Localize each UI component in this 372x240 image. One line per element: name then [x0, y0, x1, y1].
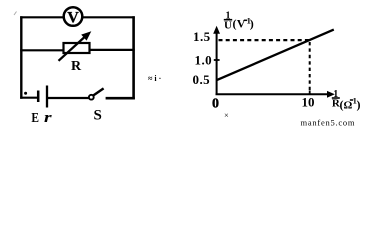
svg-text:r: r	[44, 110, 52, 126]
dashed vertical line at 10	[309, 42, 311, 94]
svg-text:): )	[250, 17, 254, 31]
battery short plate	[37, 91, 40, 103]
svg-text:0.5: 0.5	[193, 72, 211, 87]
svg-text:S: S	[94, 108, 102, 124]
wire: bottom rail middle segment	[48, 97, 89, 99]
plotted line	[217, 30, 334, 81]
y-axis title: (V^-1)	[233, 16, 254, 31]
tick 1.0 on y-axis	[214, 59, 220, 61]
wire: top rail left segment	[20, 16, 63, 18]
svg-text:×: ×	[224, 110, 229, 120]
wire: circuit right edge	[132, 16, 135, 99]
graph x-axis	[216, 93, 331, 95]
svg-text:≈ i ·: ≈ i ·	[148, 74, 161, 83]
voltmeter V	[64, 7, 83, 26]
y-axis title: fraction 1/U	[224, 11, 232, 32]
tick 10 on x-axis	[309, 91, 311, 95]
x-axis title: (Omega^-1)	[340, 95, 361, 111]
wire: top rail right segment	[83, 16, 135, 18]
switch S lever	[93, 88, 103, 95]
svg-text:V: V	[237, 17, 246, 31]
graph x-axis arrowhead	[327, 91, 335, 98]
wire: circuit left edge	[20, 16, 22, 99]
svg-text:0: 0	[212, 97, 219, 112]
svg-text:1.0: 1.0	[195, 53, 212, 68]
wire: bottom rail right segment	[106, 97, 135, 100]
switch S pivot circle	[89, 95, 94, 100]
graph y-axis arrowhead	[213, 26, 220, 34]
battery long plate	[46, 86, 48, 108]
faint scratch artifact top-left	[14, 12, 17, 16]
svg-text:Ω: Ω	[344, 100, 353, 112]
wire: bottom rail left segment	[20, 97, 37, 99]
svg-text:): )	[357, 98, 361, 112]
svg-text:R: R	[71, 59, 82, 74]
x-axis title: fraction 1/R	[332, 89, 341, 110]
svg-text:V: V	[67, 9, 79, 26]
svg-text:E: E	[31, 111, 39, 126]
graph y-axis	[216, 30, 218, 95]
dashed horizontal line at 1.5	[219, 39, 310, 41]
wire: middle rail left segment	[20, 49, 64, 51]
svg-text:U: U	[224, 19, 232, 31]
svg-text:10: 10	[302, 95, 315, 110]
junction dot	[24, 92, 27, 95]
rheostat arrow	[59, 31, 92, 61]
wire: middle rail right segment	[89, 49, 135, 51]
resistor R (rheostat box)	[64, 43, 90, 53]
svg-text:1.5: 1.5	[193, 29, 211, 44]
svg-text:manfen5.com: manfen5.com	[301, 118, 356, 128]
